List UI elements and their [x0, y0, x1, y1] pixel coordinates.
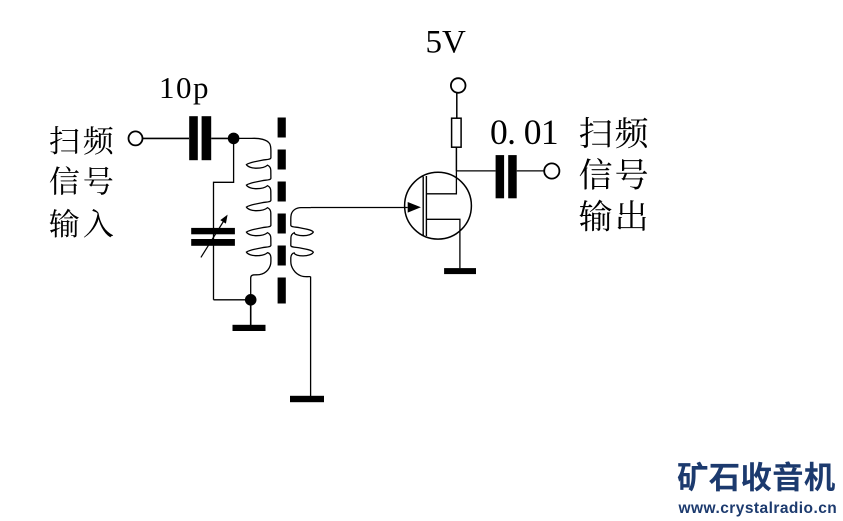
- svg-text:5V: 5V: [426, 24, 467, 60]
- wire node A down to variable capacitor: [214, 144, 234, 300]
- svg-text:0. 01: 0. 01: [490, 112, 558, 152]
- wire drain node to C3: [456, 170, 495, 172]
- transistor Q1 source lead: [426, 219, 460, 268]
- output terminal: [544, 163, 559, 178]
- capacitor C3 plates: [496, 155, 517, 198]
- variable capacitor C2 plates: [191, 228, 235, 246]
- node A junction dot: [228, 133, 240, 145]
- label sweep signal input (3 lines): [50, 126, 113, 155]
- capacitor C1 10p plates: [189, 116, 211, 160]
- wire resistor to drain node: [455, 147, 457, 171]
- wire node B to ground: [250, 306, 252, 326]
- wire C3 to output terminal: [517, 170, 544, 172]
- transistor Q1 gate bars: [423, 176, 426, 236]
- ground G2: [290, 396, 324, 402]
- gate arrow: [408, 202, 421, 213]
- label sweep signal output (3 lines): [580, 117, 648, 149]
- svg-text:10p: 10p: [159, 70, 210, 105]
- logo text crystal radio: [678, 461, 835, 491]
- wire C1 to node A: [211, 137, 228, 139]
- ground G3 source: [444, 268, 476, 274]
- transistor Q1 body circle: [405, 172, 472, 239]
- transistor Q1 drain lead: [426, 171, 456, 194]
- ground G1: [233, 325, 266, 331]
- wire L2 to gate: [311, 207, 408, 209]
- inductor L2 secondary winding: [291, 208, 314, 277]
- resistor R1: [452, 118, 462, 147]
- wire L2 bottom to ground: [310, 277, 312, 396]
- inductor L1 primary winding: [239, 138, 271, 295]
- wire C2 bottom to node B: [214, 299, 246, 301]
- svg-text:www.crystalradio.cn: www.crystalradio.cn: [678, 500, 838, 517]
- input terminal: [129, 131, 143, 145]
- wire terminal to resistor: [456, 93, 458, 118]
- wire input to C1: [143, 137, 189, 139]
- variable capacitor arrow: [201, 215, 228, 258]
- node B junction dot: [245, 294, 257, 306]
- transformer core dashed line: [278, 118, 286, 304]
- supply terminal: [451, 78, 466, 93]
